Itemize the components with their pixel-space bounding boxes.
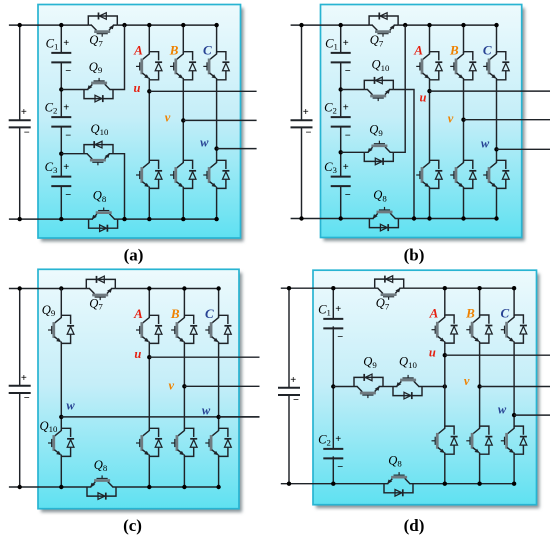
svg-text:(a): (a) — [124, 246, 144, 265]
wire Q9 left (a) — [61, 89, 84, 91]
wire output w (c) — [219, 416, 260, 418]
svg-text:B: B — [170, 306, 180, 321]
capacitor DC source (c) — [9, 386, 31, 393]
panel (c) box shadow — [41, 273, 242, 512]
IGBT Q9 with antiparallel diode (b) — [364, 141, 393, 165]
svg-text:+: + — [63, 162, 69, 173]
node source bottom (a) — [18, 217, 22, 221]
IGBT+diode upper switch leg A (a) — [136, 52, 162, 80]
node leg B bottom (d) — [477, 482, 481, 486]
node leg A bottom (b) — [427, 216, 431, 220]
wire output u (b) — [430, 90, 550, 92]
node u (b) — [427, 89, 431, 93]
svg-text:C: C — [205, 306, 214, 321]
svg-text:−: − — [337, 462, 343, 473]
node w (a) — [214, 146, 218, 150]
IGBT+diode upper switch leg B (d) — [466, 315, 492, 343]
node w (d) — [512, 413, 516, 417]
IGBT+diode lower switch leg C (a) — [203, 160, 229, 188]
capacitor C2 (b) — [331, 117, 351, 127]
wire leg A (a) — [148, 25, 150, 53]
node v (a) — [181, 118, 185, 122]
wire clamp vertical Q10 (a) — [113, 154, 125, 219]
IGBT+diode lower switch leg C (d) — [501, 426, 527, 454]
wire DC source branch (a) — [19, 25, 21, 219]
IGBT+diode lower switch leg A (d) — [432, 426, 458, 454]
wire top rail right (d) — [404, 287, 514, 289]
wire leg A mid (d) — [444, 343, 446, 427]
node chain top (a) — [59, 23, 63, 27]
node leg B top (d) — [477, 286, 481, 290]
panel (d) box shadow — [316, 274, 540, 509]
wire clamp row right (d) — [422, 386, 445, 388]
capacitor C3 (a) — [51, 177, 71, 187]
capacitor C2 (d) — [323, 449, 343, 459]
IGBT+diode lower switch leg B (b) — [450, 160, 476, 188]
IGBT+diode lower switch leg A (c) — [136, 428, 162, 456]
wire bottom rail right (b) — [398, 218, 496, 220]
wire output w (b) — [497, 148, 550, 150]
wire top rail left (b) — [291, 24, 370, 26]
node leg B top (c) — [182, 286, 186, 290]
IGBT Q8 with antiparallel diode (d) — [384, 472, 413, 496]
node leg A top (c) — [147, 286, 151, 290]
IGBT+diode upper switch leg A (b) — [416, 52, 442, 80]
IGBT Q10 with antiparallel diode (a) — [84, 141, 113, 165]
IGBT Q9 with antiparallel diode (a) — [84, 78, 113, 102]
wire leg C mid (b) — [496, 80, 498, 162]
node leg C top (a) — [214, 23, 218, 27]
node aux branch bottom (c) — [59, 485, 63, 489]
node leg C top (b) — [494, 23, 498, 27]
svg-text:A: A — [413, 42, 423, 57]
svg-text:−: − — [24, 393, 30, 404]
wire aux branch upper (c) — [60, 289, 62, 317]
IGBT Q10 with antiparallel diode (c) — [48, 428, 74, 456]
svg-text:+: + — [21, 373, 27, 384]
node source top (d) — [287, 286, 291, 290]
wire capacitor chain (d) — [332, 288, 334, 484]
wire leg C bottom (a) — [216, 189, 218, 220]
IGBT+diode upper switch leg B (c) — [171, 315, 197, 343]
wire leg B mid (c) — [183, 344, 185, 430]
node v (c) — [182, 384, 186, 388]
svg-text:B: B — [449, 42, 459, 57]
wire aux branch middle (c) — [60, 344, 62, 430]
wire DC source branch (b) — [301, 25, 303, 218]
IGBT Q8 with antiparallel diode (c) — [87, 475, 116, 499]
node w (c) — [216, 415, 220, 419]
node w aux (c) — [59, 415, 63, 419]
wire output w (a) — [217, 148, 257, 150]
wire leg A mid (b) — [429, 80, 431, 162]
IGBT+diode upper switch leg A (c) — [136, 315, 162, 343]
wire output v (c) — [184, 385, 259, 387]
wire clamp row middle (d) — [383, 386, 393, 388]
IGBT+diode upper switch leg C (d) — [501, 315, 527, 343]
node clamp to leg A (d) — [443, 384, 447, 388]
wire leg C (d) — [513, 288, 515, 316]
node after Q7 (a) — [122, 23, 126, 27]
svg-text:u: u — [420, 91, 427, 105]
node leg C top (d) — [512, 286, 516, 290]
svg-text:B: B — [169, 42, 179, 57]
wire Q10 left (a) — [61, 153, 84, 155]
svg-text:C: C — [483, 42, 492, 57]
svg-text:B: B — [465, 306, 475, 321]
wire leg C mid (a) — [216, 80, 218, 162]
wire leg B bottom (d) — [479, 454, 481, 483]
wire clamp row left (d) — [333, 386, 354, 388]
node leg B top (a) — [181, 23, 185, 27]
svg-text:+: + — [303, 107, 309, 118]
node source bottom (c) — [18, 485, 22, 489]
node leg B top (b) — [461, 23, 465, 27]
svg-text:w: w — [202, 404, 211, 418]
capacitor C1 (a) — [51, 53, 71, 63]
wire leg B mid (a) — [182, 80, 184, 162]
capacitor DC source (b) — [291, 120, 313, 127]
wire leg A bottom (d) — [444, 454, 446, 483]
wire leg B mid (d) — [479, 343, 481, 427]
node leg C top (c) — [216, 286, 220, 290]
node leg A top (a) — [147, 23, 151, 27]
IGBT Q7 with antiparallel diode (a) — [88, 13, 117, 37]
wire leg C mid (c) — [218, 344, 220, 430]
node after Q7 (b) — [403, 23, 407, 27]
node chain C1-C2 (d) — [331, 384, 335, 388]
IGBT+diode upper switch leg B (b) — [450, 52, 476, 80]
node v (b) — [461, 118, 465, 122]
wire leg A (b) — [429, 25, 431, 53]
svg-text:u: u — [134, 347, 141, 361]
node leg A bottom (c) — [147, 485, 151, 489]
wire leg C bottom (b) — [496, 189, 498, 219]
wire top rail left (c) — [9, 288, 86, 290]
svg-text:+: + — [335, 434, 341, 445]
svg-text:−: − — [24, 127, 30, 138]
svg-text:(d): (d) — [404, 516, 425, 535]
node source top (c) — [18, 286, 22, 290]
IGBT+diode lower switch leg C (c) — [205, 428, 231, 456]
IGBT+diode upper switch leg C (a) — [203, 52, 229, 80]
wire leg B (a) — [182, 25, 184, 53]
svg-text:w: w — [200, 136, 209, 150]
svg-text:(b): (b) — [404, 246, 425, 265]
wire bottom rail right (c) — [116, 486, 219, 488]
node w (b) — [494, 147, 498, 151]
node leg A bottom (d) — [443, 482, 447, 486]
node leg B bottom (a) — [181, 217, 185, 221]
node chain C1-C2 (a) — [59, 87, 63, 91]
wire leg B bottom (c) — [183, 457, 185, 488]
svg-text:−: − — [337, 332, 343, 343]
wire leg C (b) — [496, 25, 498, 53]
wire bottom rail right (d) — [413, 483, 514, 485]
IGBT+diode lower switch leg B (d) — [466, 426, 492, 454]
wire top rail left (a) — [9, 24, 88, 26]
svg-text:+: + — [343, 38, 349, 49]
wire w line across (c) — [61, 416, 259, 418]
node u (a) — [147, 89, 151, 93]
panel (a) background box — [38, 5, 241, 239]
svg-text:w: w — [66, 399, 75, 413]
IGBT Q9 with antiparallel diode (d) — [354, 374, 383, 398]
panel (a) box shadow — [41, 8, 244, 242]
panel (b) background box — [321, 5, 522, 238]
node leg C bottom (a) — [214, 217, 218, 221]
node leg B bottom (b) — [461, 216, 465, 220]
wire leg B bottom (a) — [182, 189, 184, 220]
node leg C bottom (d) — [512, 482, 516, 486]
capacitor C3 (b) — [331, 177, 351, 187]
wire leg B mid (b) — [463, 80, 465, 162]
wire output u (a) — [149, 90, 256, 92]
IGBT Q8 with antiparallel diode (b) — [369, 207, 398, 231]
wire bottom rail left (d) — [281, 483, 384, 485]
wire leg C (c) — [218, 289, 220, 317]
svg-text:+: + — [290, 375, 296, 386]
svg-text:v: v — [448, 112, 454, 126]
capacitor DC source (a) — [9, 120, 31, 127]
svg-text:+: + — [335, 304, 341, 315]
node before Q8 right (a) — [122, 217, 126, 221]
svg-text:A: A — [133, 42, 143, 57]
panel (b) box shadow — [324, 8, 525, 241]
svg-text:+: + — [343, 162, 349, 173]
wire output w (d) — [514, 414, 550, 416]
IGBT Q10 with antiparallel diode (d) — [393, 375, 422, 399]
svg-text:−: − — [345, 66, 351, 77]
svg-text:(c): (c) — [123, 516, 142, 535]
wire top rail right (b) — [398, 24, 496, 26]
node source top (a) — [18, 23, 22, 27]
wire capacitor chain (b) — [340, 25, 342, 218]
wire leg A bottom (a) — [148, 189, 150, 220]
node source top (b) — [299, 23, 303, 27]
wire leg A (d) — [444, 288, 446, 316]
svg-text:C: C — [500, 306, 509, 321]
node source bottom (b) — [299, 216, 303, 220]
svg-text:−: − — [65, 130, 71, 141]
panel (d) background box — [313, 270, 537, 505]
capacitor C1 (b) — [331, 53, 351, 63]
wire leg A (c) — [148, 289, 150, 317]
svg-text:w: w — [498, 403, 507, 417]
wire Q9 left (b) — [341, 151, 365, 153]
svg-text:A: A — [133, 306, 143, 321]
wire leg C (a) — [216, 25, 218, 53]
wire output u (c) — [149, 356, 259, 358]
svg-text:v: v — [464, 374, 470, 388]
node leg A top (d) — [443, 286, 447, 290]
node leg C bottom (c) — [216, 485, 220, 489]
svg-text:C: C — [203, 42, 212, 57]
node chain C1-C2 (b) — [339, 87, 343, 91]
IGBT+diode upper switch leg C (c) — [205, 315, 231, 343]
capacitor DC source (d) — [278, 388, 300, 395]
node u (d) — [443, 353, 447, 357]
svg-text:−: − — [65, 190, 71, 201]
svg-text:u: u — [134, 81, 141, 95]
node v (d) — [477, 384, 481, 388]
svg-text:+: + — [21, 107, 27, 118]
wire capacitor chain (a) — [60, 25, 62, 219]
wire Q10 left (b) — [341, 89, 365, 91]
node chain C2-C3 (a) — [59, 152, 63, 156]
IGBT+diode lower switch leg B (c) — [171, 428, 197, 456]
IGBT+diode upper switch leg A (d) — [432, 315, 458, 343]
wire top rail right (a) — [117, 24, 216, 26]
wire Q9 right up to top rail (b) — [393, 25, 405, 152]
IGBT+diode lower switch leg C (b) — [483, 160, 509, 188]
node chain C2-C3 (b) — [339, 150, 343, 154]
IGBT Q10 with antiparallel diode (b) — [364, 77, 393, 101]
node leg B bottom (c) — [182, 485, 186, 489]
node u (c) — [147, 355, 151, 359]
wire clamp vertical Q9 (a) — [113, 25, 125, 89]
wire output v (b) — [464, 119, 550, 121]
wire top rail right (c) — [115, 288, 218, 290]
panel (c) background box — [38, 269, 239, 508]
wire top rail left (d) — [281, 287, 375, 289]
svg-text:v: v — [165, 111, 171, 125]
capacitor C2 (a) — [51, 117, 71, 127]
wire leg B (d) — [479, 288, 481, 316]
node chain bottom (b) — [339, 216, 343, 220]
IGBT+diode lower switch leg A (b) — [416, 160, 442, 188]
node source bottom (d) — [287, 482, 291, 486]
node aux branch top (c) — [59, 286, 63, 290]
wire bottom rail left (c) — [9, 486, 87, 488]
svg-text:u: u — [429, 346, 436, 360]
wire leg A mid (a) — [148, 80, 150, 162]
wire output v (a) — [183, 119, 256, 121]
svg-text:v: v — [169, 379, 175, 393]
wire output v (d) — [480, 386, 550, 388]
node chain bottom (a) — [59, 217, 63, 221]
wire leg B bottom (b) — [463, 189, 465, 219]
node Q10 bottom rail (b) — [412, 216, 416, 220]
IGBT+diode upper switch leg C (b) — [483, 52, 509, 80]
wire leg B (c) — [183, 289, 185, 317]
svg-text:−: − — [306, 127, 312, 138]
IGBT Q7 with antiparallel diode (b) — [369, 13, 398, 37]
svg-text:−: − — [65, 66, 71, 77]
IGBT Q8 with antiparallel diode (a) — [89, 208, 118, 232]
svg-text:−: − — [345, 130, 351, 141]
wire leg A bottom (c) — [148, 457, 150, 488]
IGBT Q7 with antiparallel diode (d) — [375, 276, 404, 300]
wire output u (d) — [445, 354, 550, 356]
IGBT Q9 with antiparallel diode (c) — [48, 315, 74, 343]
capacitor C1 (d) — [323, 319, 343, 329]
IGBT+diode lower switch leg A (a) — [136, 160, 162, 188]
IGBT+diode upper switch leg B (a) — [170, 52, 196, 80]
wire leg C bottom (d) — [513, 454, 515, 483]
svg-text:−: − — [293, 395, 299, 406]
wire DC source branch (d) — [288, 288, 290, 484]
node leg A bottom (a) — [147, 217, 151, 221]
wire DC source branch (c) — [19, 289, 21, 488]
svg-text:+: + — [343, 102, 349, 113]
svg-text:A: A — [429, 306, 439, 321]
svg-text:+: + — [63, 102, 69, 113]
node chain top (b) — [339, 23, 343, 27]
wire leg A mid (c) — [148, 344, 150, 430]
wire leg B (b) — [463, 25, 465, 53]
wire Q10 right down to bottom rail (b) — [393, 90, 414, 219]
node chain top (d) — [331, 286, 335, 290]
wire leg A bottom (b) — [429, 189, 431, 219]
IGBT Q7 with antiparallel diode (c) — [86, 276, 115, 300]
node leg A top (b) — [427, 23, 431, 27]
node leg C bottom (b) — [494, 216, 498, 220]
wire bottom rail left (a) — [9, 218, 89, 220]
wire bottom rail left (b) — [291, 218, 370, 220]
svg-text:−: − — [345, 190, 351, 201]
wire bottom rail right (a) — [118, 218, 217, 220]
wire leg C bottom (c) — [218, 457, 220, 488]
wire aux branch lower (c) — [60, 457, 62, 488]
node chain bottom (d) — [331, 482, 335, 486]
svg-text:w: w — [481, 137, 490, 151]
svg-text:+: + — [63, 38, 69, 49]
IGBT+diode lower switch leg B (a) — [170, 160, 196, 188]
wire leg C mid (d) — [513, 343, 515, 427]
